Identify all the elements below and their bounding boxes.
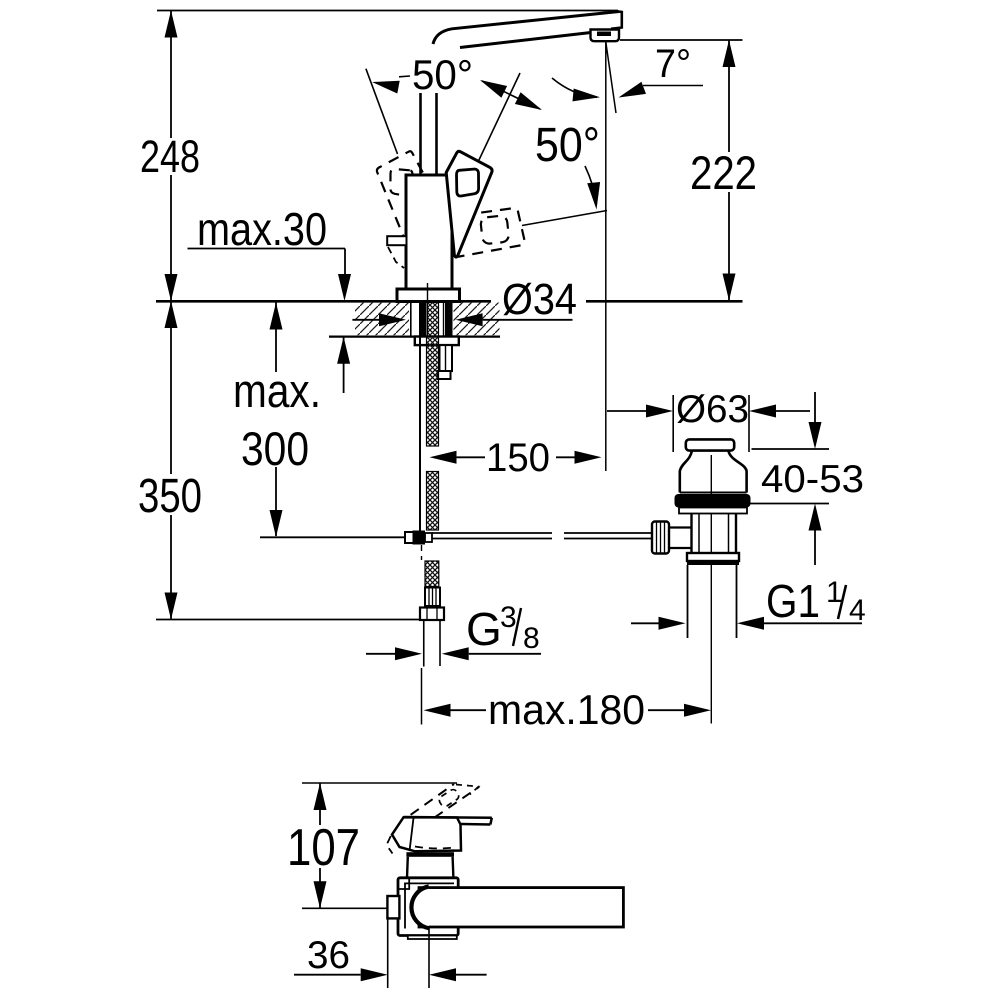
hose crimp connector: [425, 588, 440, 607]
dim G114 left line: [631, 622, 659, 624]
dim 4053 lower arrow: [809, 504, 822, 531]
svg-text:G1: G1: [766, 575, 820, 627]
side body notch: [398, 878, 409, 889]
water stream vertical line: [605, 42, 607, 471]
dim 350 line lower: [170, 515, 172, 620]
counter top line seg2: [586, 300, 743, 303]
drain coupling nut: [687, 553, 739, 561]
rotation radius line right: [445, 73, 520, 232]
dim max180 right arrow: [684, 704, 711, 717]
dim 107 bottom ref line: [302, 907, 388, 909]
dim dia63 left arrow: [646, 405, 673, 418]
pull rod vertical: [419, 302, 421, 531]
dim G114 right line: [764, 622, 862, 624]
dim max180 right line: [648, 709, 684, 711]
dim 350 arrow bottom: [165, 593, 178, 620]
hose braid above connector: [425, 561, 439, 587]
dim 7deg label line: [643, 85, 703, 87]
dim 222 line lower: [728, 192, 730, 301]
drain tailpipe right: [736, 565, 738, 638]
svg-text:max.30: max.30: [197, 203, 327, 255]
dim max30 drop line: [344, 249, 346, 277]
neck right line: [435, 93, 438, 175]
side spout bar: [419, 888, 623, 927]
dim max30 arrow: [338, 274, 351, 301]
dim 36 line right: [456, 974, 487, 976]
dim dia63 right arrow: [749, 405, 776, 418]
svg-text:7°: 7°: [655, 42, 691, 86]
dim G38 right arrow: [442, 647, 469, 660]
drain flange bottom edge: [680, 492, 747, 494]
drain body left line: [690, 514, 692, 554]
faucet lower centerline: [421, 668, 423, 725]
side dashed lever tip: [438, 788, 461, 808]
faucet handle dashed right 50-deg position: [455, 208, 525, 256]
dim 50deg right leader arrow: [587, 182, 600, 210]
dim 7deg leader arrow: [619, 82, 647, 98]
side dashed lever up line2: [434, 787, 479, 818]
side dashed lever down arc: [415, 847, 452, 849]
drain inner pipe left: [698, 514, 700, 554]
side lever bar end: [490, 818, 491, 825]
side handle inner line: [410, 818, 414, 851]
dim dia34 right line: [483, 319, 573, 321]
side spout base semicircle: [411, 887, 428, 929]
svg-text:max.180: max.180: [488, 686, 645, 733]
horizontal rod seg2 bottom: [564, 538, 652, 540]
rotation cross line: [482, 81, 540, 109]
dim 150 right arrow: [575, 451, 602, 464]
dim 107 line lower: [319, 868, 321, 908]
side handle body: [392, 817, 461, 851]
drain lever boss bottom: [669, 547, 692, 549]
dim dia63 ext left: [672, 395, 674, 452]
dim G114 left arrow: [659, 617, 686, 630]
side dashed lever down: [387, 836, 393, 854]
shank left wall thin: [410, 302, 412, 336]
pull rod joint square: [413, 531, 426, 545]
side lever bar bottom: [461, 823, 490, 826]
tube below nut right: [439, 620, 441, 666]
shank inner line: [443, 303, 445, 336]
dim 50deg left arrow: [372, 81, 400, 94]
drain knurled knob: [652, 522, 669, 554]
dim G38 left line: [366, 653, 395, 655]
dim 350 line upper: [170, 301, 172, 474]
dim 4053 lower line: [814, 531, 816, 566]
svg-text:Ø63: Ø63: [676, 388, 749, 431]
dim max300 line lower: [275, 467, 277, 536]
dim dia34 left line: [352, 319, 380, 321]
pull rod joint right piece: [425, 533, 432, 542]
drain body right line: [735, 514, 737, 554]
dim dia34 left arrow: [379, 313, 406, 326]
dim 222 line upper: [728, 40, 730, 152]
mounting nut fitting: [440, 345, 453, 371]
shank right wall thick: [445, 302, 453, 337]
aerator: [591, 30, 620, 42]
mounting washer: [415, 337, 459, 346]
horizontal rod seg2 top: [564, 532, 652, 534]
dim 36 line left: [294, 974, 361, 976]
dim 150 right line: [556, 456, 575, 458]
dim dia34 right arrow: [456, 313, 483, 326]
pull rod joint block: [405, 532, 415, 543]
svg-text:max.: max.: [233, 364, 321, 417]
svg-text:G: G: [466, 603, 502, 655]
side left square: [387, 896, 399, 918]
dim max30 underline: [188, 248, 346, 250]
counter hatch left: [355, 303, 409, 336]
supply hose upper segment: [427, 337, 439, 447]
counter underside arrow: [337, 337, 350, 364]
drain inner pipe right: [728, 514, 730, 554]
aerator insert: [597, 32, 611, 37]
spout end face: [611, 12, 622, 29]
horizontal rod seg1 bottom: [432, 538, 552, 540]
dim 36 arrow left: [361, 968, 388, 981]
dim 150 left arrow: [430, 451, 457, 464]
dim max180 left line: [451, 709, 487, 711]
dim max300 arrow bottom: [270, 510, 283, 537]
counter hatch right: [454, 303, 500, 336]
horizontal rod seg1 top: [432, 532, 552, 534]
tube below nut left: [423, 620, 425, 667]
dim 222 arrow top: [723, 40, 736, 67]
side body bottom lip: [408, 936, 457, 940]
dim 36 ext right: [428, 927, 430, 988]
side cartridge band: [406, 852, 454, 857]
side view top ref line: [302, 782, 457, 784]
svg-text:50°: 50°: [535, 119, 600, 172]
dim 248 arrow top: [165, 11, 178, 38]
svg-text:8: 8: [523, 622, 540, 655]
dim 248 arrow bottom: [165, 274, 178, 301]
dim G114 text: [766, 575, 866, 627]
dim 107 arrow bottom: [314, 881, 327, 908]
svg-text:Ø34: Ø34: [502, 275, 577, 324]
dim 50deg left leader: [399, 75, 410, 78]
side cartridge sides: [407, 857, 453, 878]
dim dia63 left line: [607, 410, 647, 412]
dim 4053 upper line: [814, 392, 816, 422]
faucet handle dashed left 50-deg position: [377, 151, 423, 257]
dim 222 top ref line: [620, 39, 743, 41]
dim G38 right line: [469, 653, 541, 655]
dim 222 arrow bottom: [723, 274, 736, 301]
dim 7deg arc: [552, 78, 597, 97]
dim 50deg right leader arc: [585, 166, 597, 204]
spout top edge: [433, 12, 619, 45]
dim max300 line upper: [275, 303, 277, 373]
dim dia63 right line: [776, 410, 810, 412]
drain trumpet flange: [680, 451, 747, 493]
dim 350 bottom ref line: [156, 619, 420, 621]
side dashed lever tip2: [456, 785, 479, 795]
svg-text:222: 222: [690, 146, 757, 199]
drain tailpipe left: [687, 565, 689, 638]
dim 4053 lower ref line: [747, 503, 829, 505]
base plate: [397, 289, 460, 302]
handle reference line right: [522, 211, 607, 226]
dim 248 line upper: [170, 11, 172, 139]
svg-text:150: 150: [486, 436, 550, 480]
dim max180 left arrow: [424, 704, 451, 717]
dim G38 text: [466, 601, 540, 655]
mounting stud stub: [438, 371, 451, 379]
dim 36 arrow right: [429, 968, 456, 981]
dashed detail below tab: [388, 247, 404, 268]
dim 7deg arc arrow: [573, 89, 601, 102]
svg-text:107: 107: [287, 819, 360, 877]
dim G38 left arrow: [395, 647, 422, 660]
side main body: [398, 878, 458, 936]
spout bottom edge: [460, 33, 591, 48]
faucet centerline through plate: [427, 283, 429, 302]
svg-text:350: 350: [138, 470, 202, 523]
dim 107 arrow top: [314, 783, 327, 810]
top reference line: [157, 10, 618, 12]
drain centerline: [710, 455, 712, 724]
rotation cross arrow A: [480, 80, 507, 98]
dim G114 right arrow: [737, 617, 764, 630]
temperature stop tab left: [387, 236, 406, 245]
dim 4053 upper arrow: [809, 422, 822, 449]
faucet body: [406, 175, 452, 293]
faucet handle solid: [446, 151, 492, 257]
G3/8 hex nut: [420, 608, 444, 621]
drain rubber gasket: [675, 494, 751, 508]
side dashed lever up line1: [411, 784, 454, 815]
side lever bar top: [404, 816, 492, 819]
drain flange ring under gasket: [679, 508, 747, 514]
supply hose lower segment: [427, 472, 439, 531]
svg-text:248: 248: [140, 131, 200, 182]
rotation radius line left: [366, 69, 398, 154]
side body inner wall: [405, 883, 454, 928]
counter underside arrow line: [343, 337, 345, 393]
dim 150 left line: [457, 456, 486, 458]
svg-text:3: 3: [500, 601, 517, 634]
svg-text:300: 300: [241, 422, 309, 475]
counter bottom line: [329, 336, 500, 338]
dim 107 line upper: [319, 783, 321, 825]
dim max300 arrow top: [270, 303, 283, 330]
shank left wall thick: [419, 303, 427, 337]
mounting nut inner line: [445, 345, 447, 371]
drain coupling nut black band: [687, 561, 739, 565]
rotation cross arrow B: [515, 92, 542, 110]
svg-text:50°: 50°: [412, 51, 473, 98]
svg-text:40-53: 40-53: [761, 458, 864, 501]
supply hose in shank: [428, 302, 439, 337]
dim 248 line lower: [170, 175, 172, 301]
dim 36 ext left: [387, 918, 389, 988]
counter top line seg1: [156, 300, 491, 303]
neck left line: [419, 93, 422, 175]
svg-text:4: 4: [849, 594, 866, 627]
drain lever boss top: [669, 526, 692, 528]
svg-text:36: 36: [307, 934, 350, 977]
dim 350 arrow top: [165, 301, 178, 328]
dim dia63 ext right: [748, 395, 750, 452]
7-deg tilted line: [606, 42, 616, 113]
joint dashed centerline: [421, 545, 423, 560]
drain plug cap: [686, 439, 734, 450]
dim max300 bottom ref line: [260, 536, 404, 538]
dim 4053 upper ref line: [752, 448, 830, 450]
